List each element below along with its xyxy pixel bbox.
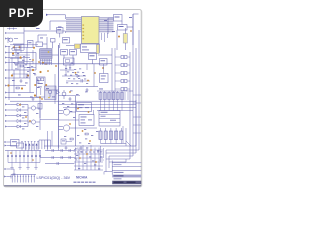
svg-text:LSPIC01(DIQ) - 36V: LSPIC01(DIQ) - 36V	[37, 176, 71, 180]
svg-text:NICHIA: NICHIA	[76, 176, 88, 180]
